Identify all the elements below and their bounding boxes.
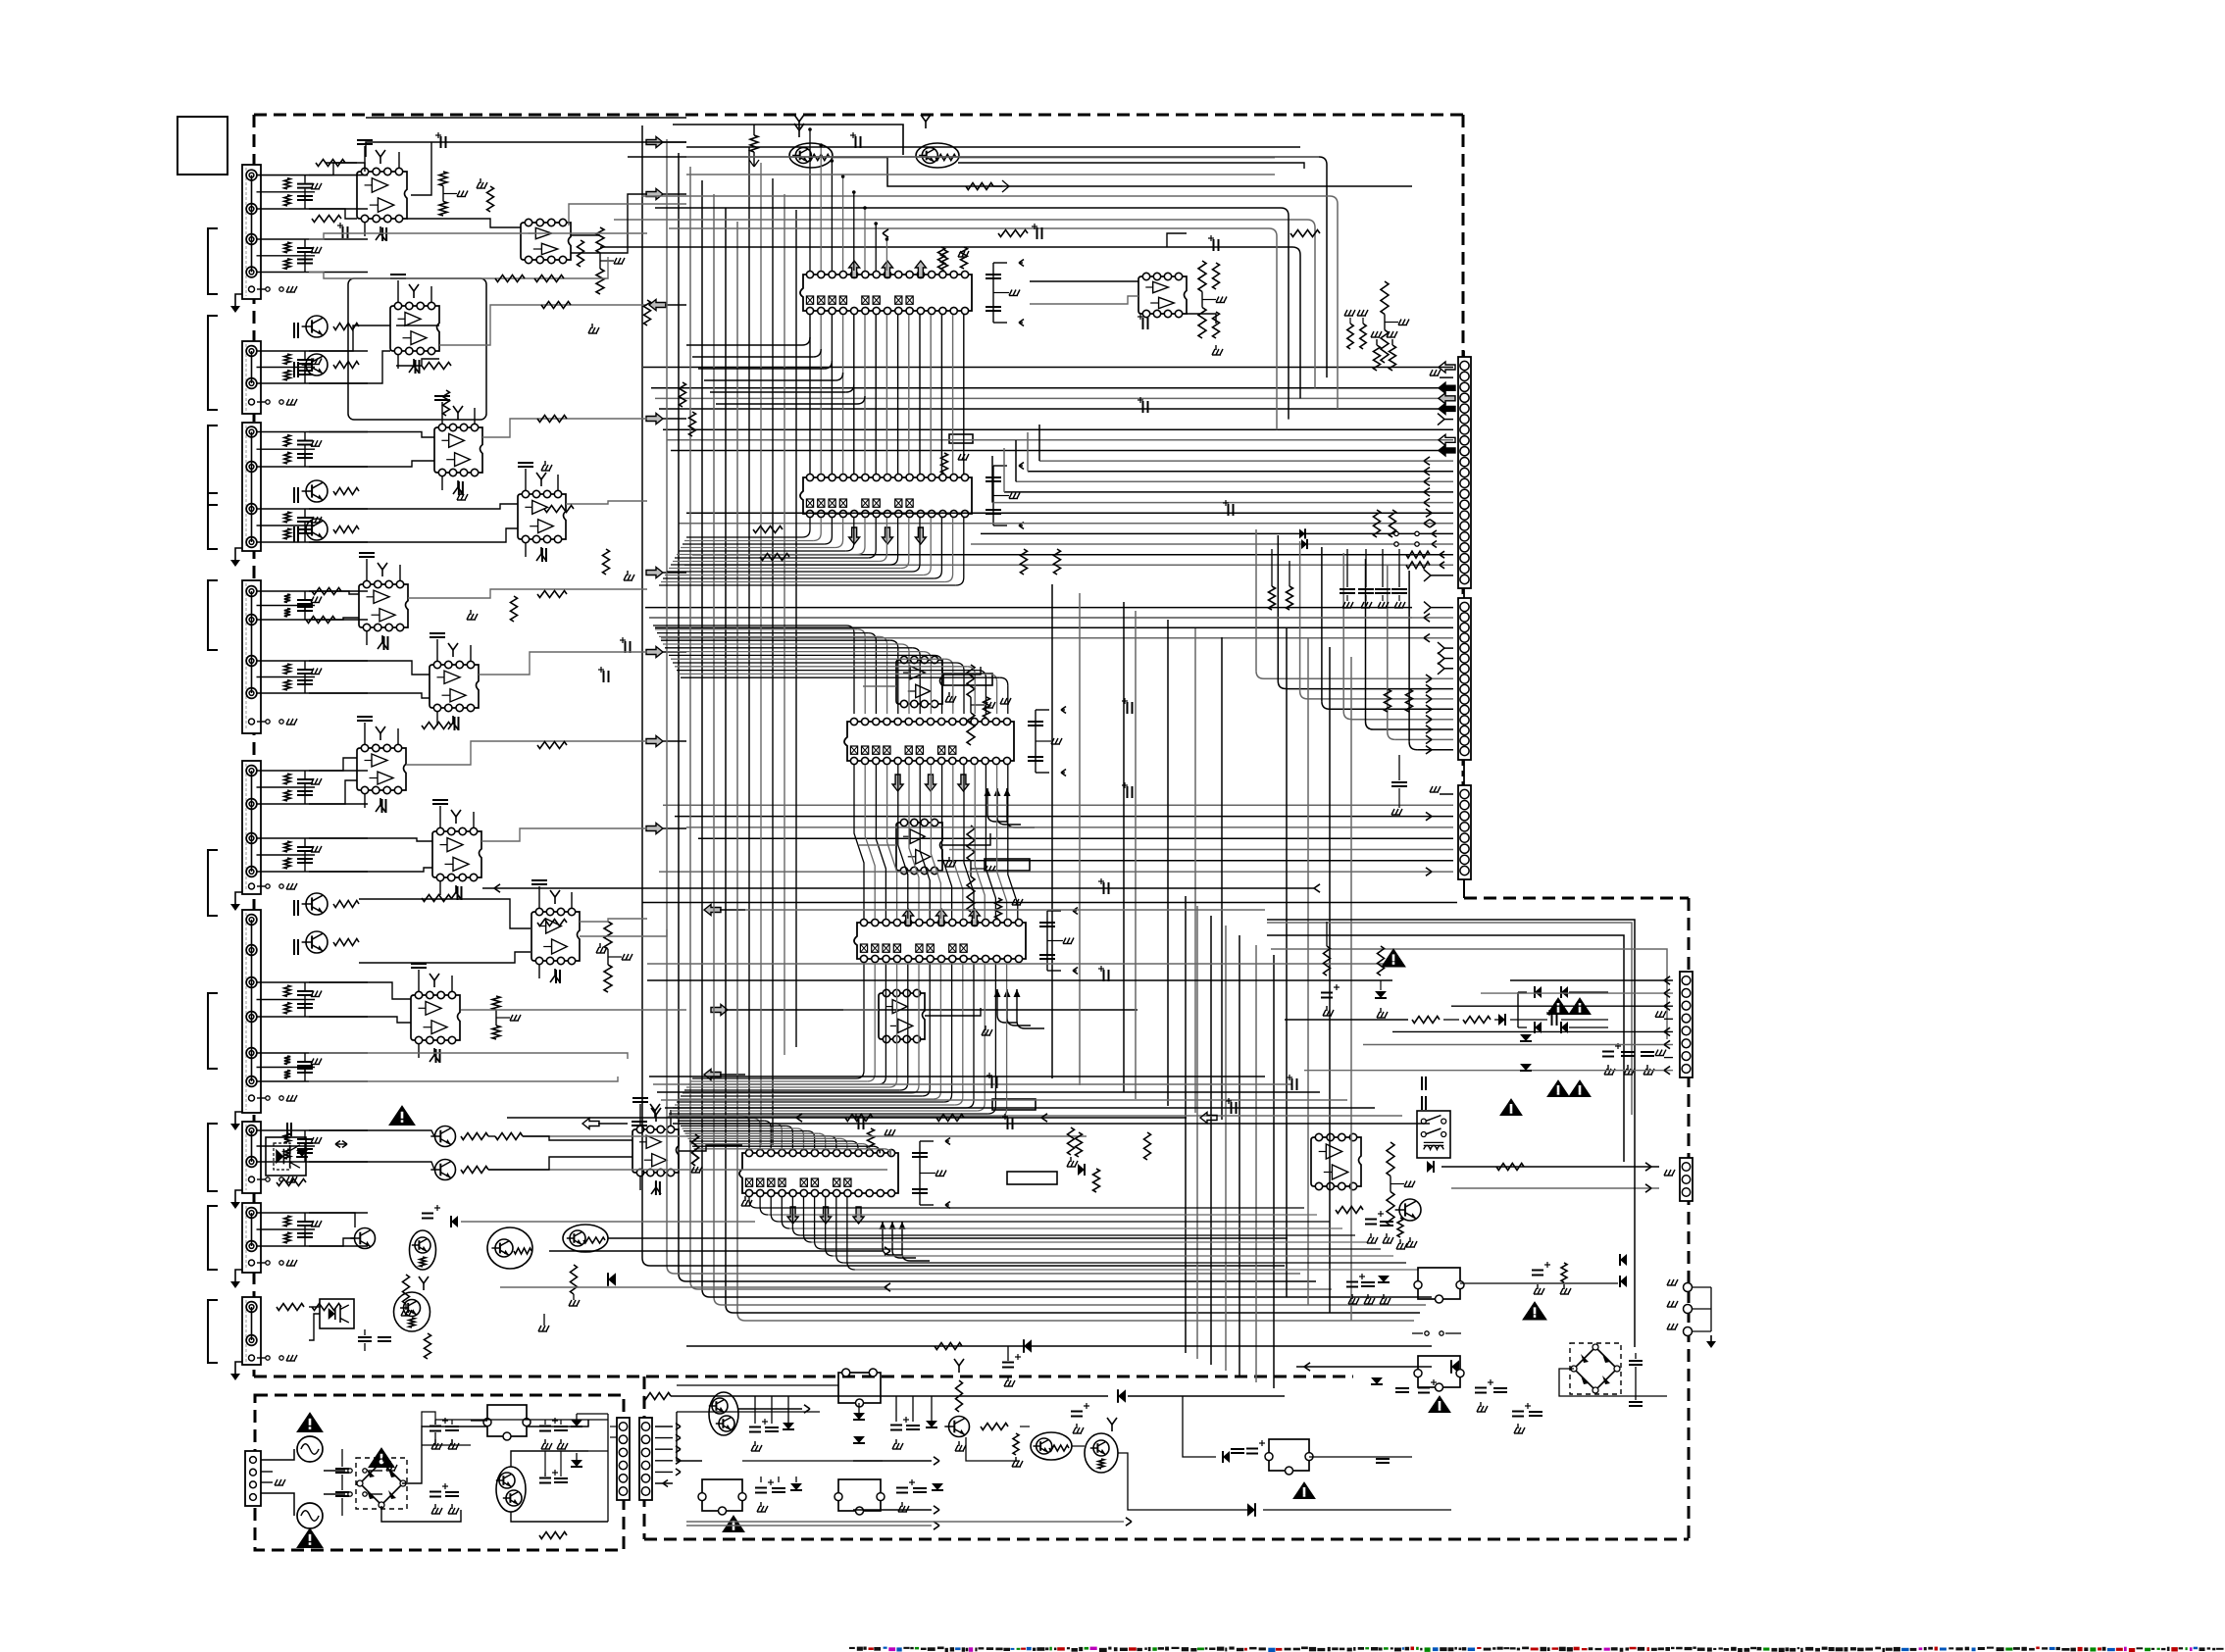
signal arrow left y1096 bbox=[704, 1070, 721, 1080]
bus nest V4-5 bbox=[655, 207, 1281, 209]
bus line to CN201 pin6 bbox=[1444, 419, 1453, 421]
input group bracket 5 bbox=[208, 580, 218, 650]
IC101 supply decoupling bbox=[941, 250, 948, 271]
bus IC101-IC102 pin12 bbox=[930, 315, 932, 474]
IC103 control arrow pin11 bbox=[958, 775, 969, 791]
signal arrowhead 4 bbox=[1041, 1114, 1047, 1118]
bus horizontal H1-8 bbox=[745, 1320, 1414, 1322]
bus IC103-IC104 pin11 bbox=[964, 765, 974, 919]
bus vertical V3b-2 bbox=[1196, 906, 1198, 1359]
coupling cap mark 5 bbox=[1142, 401, 1144, 413]
wire run 7 bbox=[407, 219, 521, 227]
bus vertical V3c-1 bbox=[1051, 584, 1053, 1078]
coupling cap mark 10 bbox=[1228, 504, 1230, 516]
bus vertical V1b-3 bbox=[772, 178, 774, 1145]
regulator IC503 bbox=[1269, 1439, 1309, 1471]
ground under CN103 bbox=[235, 548, 242, 554]
diode D505 bbox=[1371, 1377, 1383, 1384]
wire run 4 bbox=[326, 162, 357, 164]
IC102 control arrow pin11 bbox=[915, 527, 926, 544]
op-amp U102 bbox=[521, 223, 571, 260]
cap C404 bbox=[445, 1426, 459, 1427]
CN503 arrow pin5 bbox=[1392, 1030, 1673, 1032]
op-amp U117 bbox=[1138, 276, 1187, 314]
op-amp U119 bias parts bbox=[418, 970, 420, 991]
warning triangle W4 bbox=[369, 1448, 394, 1468]
bus line to CN202 pin11 bbox=[1321, 547, 1323, 701]
bus IC103 in pin15 bbox=[681, 676, 1000, 678]
bus IC105 in pin12 bbox=[691, 1143, 863, 1145]
long rail y920 bbox=[642, 902, 1457, 904]
input group bracket 1 bbox=[208, 228, 218, 294]
CN503 chassis pin4 bbox=[1664, 1018, 1673, 1020]
CN201-CN202 stub bbox=[1463, 588, 1465, 598]
bus line to CN202 pin1 bbox=[1431, 607, 1453, 609]
resistor R201 bbox=[750, 135, 758, 152]
bus IC104 out pin1 bbox=[863, 963, 865, 1071]
regulator IC502 bbox=[1418, 1356, 1460, 1387]
bus IC103 in pin12 bbox=[675, 666, 967, 668]
cap C408 bbox=[554, 1426, 568, 1427]
IC104 sense arrows bbox=[996, 989, 998, 1015]
CN503 arrow pin2 bbox=[1481, 992, 1673, 994]
bus riser CN201 pin13 bbox=[1003, 448, 1005, 492]
bus horizontal H1-5 bbox=[710, 1296, 1432, 1298]
signal arrow right y584 bbox=[646, 568, 663, 578]
bus elbow IC101 pin1 bbox=[802, 337, 810, 345]
warning triangle W9 bbox=[1293, 1482, 1315, 1499]
wire run 43 bbox=[309, 1130, 434, 1136]
bus line to CN202 pin6 bbox=[1444, 658, 1453, 660]
bus below IC105 pin10 bbox=[846, 1197, 848, 1262]
opamp U115 bias bbox=[632, 1121, 647, 1123]
CN503 arrow pin8 bbox=[1304, 1070, 1673, 1072]
series resistor SR16 bbox=[422, 723, 451, 729]
coupling cap mark 19 bbox=[1291, 1078, 1293, 1090]
CN302 arrow pin3 bbox=[655, 1448, 673, 1450]
series resistor SR14 bbox=[1290, 230, 1320, 237]
bus vertical V3-2 bbox=[1307, 637, 1309, 1305]
op-amp U109 bbox=[896, 660, 942, 704]
bias resistor VR15 bbox=[1385, 689, 1391, 712]
wire run 21 bbox=[309, 528, 518, 542]
wire run 69 bbox=[686, 174, 1275, 175]
op-amp U115 bbox=[632, 1129, 679, 1173]
input group bracket 2 bbox=[208, 316, 218, 410]
transistor Q302 bbox=[435, 1160, 456, 1180]
bus IC104 out pin13 bbox=[994, 963, 996, 1106]
bus line to CN201 pin10 bbox=[1039, 460, 1453, 462]
bias resistor VR2 bbox=[578, 240, 584, 267]
wire run 50 bbox=[309, 1306, 320, 1308]
pm wires1 bbox=[677, 1412, 702, 1461]
cap C515 bbox=[1231, 1448, 1244, 1450]
bus horizontal H2-6 bbox=[669, 1115, 1402, 1117]
res R501 bbox=[1496, 1164, 1524, 1171]
IC105 control arrow pin5 bbox=[787, 1207, 798, 1224]
bus line to CN203 pin7 bbox=[937, 860, 1453, 862]
diode D305 bbox=[790, 1483, 802, 1490]
bus vertical V1b-5 bbox=[795, 210, 797, 1047]
bus vertical V1-5 bbox=[701, 180, 703, 1289]
yfork Q311 bbox=[958, 1366, 960, 1373]
bus IC104 out pin3 bbox=[885, 963, 886, 1076]
op-amp U107 bias parts bbox=[366, 559, 368, 580]
warning triangle W7 bbox=[1429, 1396, 1450, 1413]
wire run 39 bbox=[309, 1017, 411, 1023]
bus IC101-IC102 pin6 bbox=[864, 315, 866, 474]
bus IC103-IC104 pin8 bbox=[931, 765, 940, 919]
cap C308 bbox=[913, 1487, 927, 1489]
res R303 bbox=[495, 1133, 523, 1140]
wire run 19 bbox=[482, 419, 647, 437]
bus line to CN201 pin17 bbox=[981, 532, 1453, 534]
connector CN503 bbox=[1680, 972, 1693, 1077]
bus below IC105 pin7 bbox=[814, 1197, 816, 1241]
shield box main left edge bbox=[253, 115, 256, 1377]
IC104 control arrow pin5 bbox=[903, 909, 914, 926]
bias resistor VR18 bbox=[1093, 1169, 1100, 1192]
input RC network IN4 bbox=[257, 431, 368, 433]
op-amp U110 bias parts bbox=[364, 723, 366, 744]
cap C522 bbox=[1641, 1051, 1654, 1053]
op-amp U112 bbox=[896, 823, 942, 871]
input RC network IN8 bbox=[257, 770, 368, 772]
wire Q201-Q202 bbox=[833, 158, 1412, 187]
connector CN105 bbox=[242, 761, 261, 894]
CN302 arrow pin6 bbox=[655, 1482, 673, 1484]
bus vertical V3c-5 bbox=[1167, 620, 1169, 1106]
bus line to CN201 pin14 bbox=[992, 502, 1453, 504]
loose pin P1 bbox=[1684, 1283, 1693, 1292]
input RC network IN13 bbox=[257, 1212, 368, 1214]
signal arrow right y427 bbox=[646, 414, 663, 425]
mains box bbox=[255, 1395, 624, 1550]
scan noise strip bbox=[849, 1647, 855, 1649]
record mute switch at CN107 bbox=[257, 1178, 266, 1180]
bus below IC105 pin4 bbox=[781, 1197, 783, 1221]
record mute switch at CN102 bbox=[257, 401, 266, 403]
bus line to CN202 pin2 bbox=[649, 617, 1453, 619]
wire run 57 bbox=[1167, 233, 1187, 247]
mains wires bbox=[261, 1449, 294, 1460]
IC105 control arrow pin11 bbox=[853, 1207, 864, 1224]
signal arrow right y756 bbox=[646, 736, 663, 747]
pm bottom rail bbox=[686, 1521, 1124, 1523]
wire run 59 bbox=[942, 667, 981, 675]
diode quad D520 bbox=[1535, 986, 1542, 998]
bus IC105 in pin5 bbox=[681, 1125, 785, 1126]
bus IC105 in pin8 bbox=[685, 1132, 819, 1134]
cap C406 bbox=[445, 1491, 459, 1493]
bus line to CN202 pin15 bbox=[1408, 571, 1410, 742]
op-amp U103 bbox=[390, 306, 439, 351]
IC103 sense arrows bbox=[986, 788, 988, 814]
shield box stub below CN3 bbox=[1463, 879, 1465, 898]
input RC network IN12 bbox=[257, 1129, 368, 1131]
bus line to CN202 pin12 bbox=[1342, 553, 1344, 712]
wire run 60 bbox=[863, 685, 896, 687]
cap C513 bbox=[1529, 1411, 1542, 1413]
bus IC104 out pin8 bbox=[939, 963, 941, 1091]
IC104 control arrow pin8 bbox=[936, 909, 947, 926]
wire run 24 bbox=[309, 618, 359, 620]
input group bracket 8 bbox=[208, 1124, 218, 1191]
bus IC103 in pin10 bbox=[671, 658, 945, 660]
IC105 control arrow pin8 bbox=[821, 1207, 832, 1224]
res R310 bbox=[1068, 1127, 1075, 1155]
bus vertical V3b-6 bbox=[1255, 945, 1257, 1382]
wire y1246 bbox=[461, 1221, 755, 1223]
CN302 arrow pin2 bbox=[655, 1437, 673, 1439]
oval Q304 bbox=[410, 1230, 436, 1270]
IC101 control arrow pin11 bbox=[915, 261, 926, 277]
wire run 30 bbox=[309, 780, 357, 804]
signal arrow right y145 bbox=[646, 137, 663, 148]
cap C306 bbox=[772, 1487, 785, 1489]
warning triangle W1 bbox=[389, 1106, 415, 1126]
coupling cap mark 8 bbox=[625, 641, 627, 653]
transistor Q301 bbox=[435, 1126, 456, 1147]
res R521 bbox=[1378, 946, 1385, 976]
feedback divider near U106 bbox=[1198, 261, 1206, 292]
wire run 31 bbox=[406, 741, 647, 765]
signal arrowhead 1 bbox=[883, 229, 888, 233]
bus IC105 in pin2 bbox=[677, 1118, 754, 1120]
bus line to CN201 pin4 bbox=[655, 397, 1453, 399]
bus horizontal H1-2 bbox=[675, 1273, 1300, 1275]
bus IC104 out pin6 bbox=[918, 963, 920, 1085]
bus horizontal H2-4 bbox=[661, 1099, 1347, 1101]
psu mid wires bbox=[966, 1437, 1020, 1461]
diode D308 bbox=[1247, 1503, 1255, 1517]
wire run 61 bbox=[942, 833, 990, 845]
bus line to CN201 pin11 bbox=[1028, 471, 1453, 473]
wire run 37 bbox=[580, 919, 647, 922]
oval Q307 bbox=[394, 1292, 430, 1331]
bus above IC101 pin6 bbox=[864, 208, 866, 271]
bus IC102 out pin11 bbox=[919, 518, 921, 564]
input group bracket 4 bbox=[208, 493, 218, 549]
decoupling gnd 6 bbox=[470, 610, 472, 615]
input RC network IN1 bbox=[257, 175, 368, 176]
bus IC102 out pin2 bbox=[820, 518, 822, 533]
arrow psu right3 bbox=[686, 1525, 932, 1527]
wire run 47 bbox=[488, 1157, 632, 1170]
input group bracket 9 bbox=[208, 1206, 218, 1270]
bus IC104 out pin5 bbox=[907, 963, 909, 1082]
connector CN504 bbox=[1680, 1158, 1693, 1201]
bus IC103-IC104 pin12 bbox=[975, 765, 985, 919]
wire run 46 bbox=[523, 1136, 632, 1140]
shield box main right edge upper bbox=[1462, 115, 1465, 358]
wire run 29 bbox=[309, 758, 357, 771]
cap C514 bbox=[1629, 1360, 1643, 1362]
bus above IC101 pin2 bbox=[820, 145, 822, 271]
pm col stubs bbox=[754, 1396, 756, 1424]
series resistor SR8 bbox=[544, 506, 574, 513]
bus vertical V3c-6 bbox=[1194, 628, 1196, 1113]
cap C506 bbox=[1346, 1281, 1358, 1283]
wire run 20 bbox=[309, 504, 518, 509]
res R312 bbox=[981, 1424, 1008, 1430]
input RC network IN2 bbox=[257, 238, 368, 240]
diode D501 bbox=[1427, 1161, 1434, 1173]
bus vertical V3-1 bbox=[1286, 627, 1288, 1297]
wire run 56 bbox=[1030, 296, 1138, 304]
part number box IC102 bbox=[949, 434, 973, 443]
wire run 55 bbox=[1030, 280, 1138, 282]
wire run 65 bbox=[843, 1009, 879, 1011]
diode D301 bbox=[853, 1413, 865, 1420]
bus line to CN201 pin19 bbox=[692, 554, 1453, 556]
connector CN102 bbox=[242, 341, 261, 414]
optocoupler PC101 bbox=[266, 1137, 306, 1176]
CN201 stub top bbox=[1463, 351, 1465, 357]
coupling cap mark 7 bbox=[1037, 227, 1038, 239]
bus line to CN202 pin8 bbox=[1255, 529, 1257, 671]
bus IC102 out pin14 bbox=[952, 518, 954, 575]
oval Q306 bbox=[563, 1225, 608, 1252]
wire run 58 bbox=[1187, 314, 1216, 324]
rail y620 bbox=[645, 607, 1412, 609]
regulator IC302 bbox=[838, 1479, 881, 1511]
bus IC102 out pin1 bbox=[809, 518, 811, 529]
bus vertical V3c-2 bbox=[1079, 593, 1081, 1085]
bus IC101-IC102 pin7 bbox=[875, 315, 877, 474]
cap C303 bbox=[890, 1425, 902, 1427]
feedback divider near U101 bbox=[439, 172, 447, 186]
bus IC103 in pin8 bbox=[667, 651, 923, 653]
bus nest V4-2 bbox=[614, 219, 1307, 221]
bus line to CN201 pin15 bbox=[686, 512, 1453, 514]
bias resistor VR16 bbox=[1406, 689, 1413, 712]
relay RY301 bbox=[838, 1373, 881, 1403]
bus line to CN202 pin3 bbox=[655, 626, 1453, 628]
optocoupler PC102 bbox=[320, 1299, 354, 1328]
feedback divider near U109 bbox=[967, 665, 975, 697]
bus line to CN202 pin5 bbox=[1444, 647, 1453, 649]
transistor Q311 bbox=[949, 1417, 970, 1437]
long rail y1000 bbox=[647, 979, 1392, 981]
record mute switch at CN108 bbox=[257, 1262, 266, 1264]
arrow R202 bbox=[993, 185, 1002, 187]
wire run 64 bbox=[925, 1008, 981, 1016]
bus IC105 in pin9 bbox=[686, 1135, 830, 1137]
bus elbow IC101 pin5 bbox=[846, 384, 854, 392]
IC102 supply decoupling bbox=[941, 453, 948, 474]
bus vertical V1-7 bbox=[725, 208, 727, 1305]
bus vertical V3-4 bbox=[1350, 657, 1352, 1321]
res R304 bbox=[403, 1275, 410, 1304]
bias resistor VR12 bbox=[961, 247, 968, 269]
diode D306 bbox=[932, 1483, 943, 1490]
CN503 chassis pin7 bbox=[1664, 1057, 1673, 1059]
warning triangle W10 bbox=[1547, 998, 1569, 1015]
wire run 1 bbox=[366, 142, 647, 157]
op-amp U105 bbox=[518, 494, 566, 539]
bus line to CN201 pin8 bbox=[667, 439, 1453, 441]
coupling cap mark 13 bbox=[1103, 882, 1105, 894]
ground under CN105 bbox=[235, 892, 242, 898]
series resistor SR19 bbox=[537, 920, 567, 926]
wire run 15 bbox=[309, 325, 390, 351]
cap C304 bbox=[906, 1425, 920, 1427]
bus horizontal H2-2 bbox=[653, 1083, 1292, 1085]
bus IC103-IC104 pin14 bbox=[997, 765, 1007, 919]
series resistor SR10 bbox=[306, 617, 335, 624]
series resistor SR4 bbox=[534, 275, 564, 282]
wire run 42 bbox=[461, 1009, 686, 1011]
bus IC101-IC102 pin15 bbox=[963, 315, 965, 474]
op-amp U104 bias parts bbox=[441, 402, 443, 424]
bus IC105 in pin4 bbox=[680, 1123, 776, 1125]
bus above IC101 pin7 bbox=[875, 224, 877, 271]
warning triangle W13 bbox=[1547, 1080, 1569, 1097]
rail y1373 bbox=[686, 1345, 1432, 1347]
wire q306 right bbox=[608, 1237, 1288, 1239]
loose pin P2 bbox=[1684, 1305, 1693, 1314]
resistor R202 bbox=[966, 183, 993, 190]
op-amp U108 bias parts bbox=[436, 639, 438, 661]
wire y954 bbox=[1267, 935, 1624, 1162]
bus vertical V3b-3 bbox=[1210, 916, 1212, 1365]
decoupling caps row below CN201 bbox=[1346, 549, 1348, 587]
bus vertical V1-8 bbox=[736, 222, 738, 1313]
bus vertical V3-3 bbox=[1329, 647, 1331, 1313]
wire run 70 bbox=[647, 141, 686, 143]
decoupling gnd 3 bbox=[460, 490, 462, 495]
signal arrow right y845 bbox=[646, 824, 663, 834]
coupling cap mark 3 bbox=[855, 136, 857, 148]
res R309 bbox=[936, 1115, 964, 1122]
op-amp U110 bbox=[357, 748, 406, 790]
series resistor SR15 bbox=[537, 591, 567, 598]
bridge rectifier D401 bbox=[356, 1458, 407, 1509]
bias resistor VR4 bbox=[511, 596, 518, 622]
op-amp U101 bias parts bbox=[364, 146, 366, 168]
switch IC IC105 bbox=[739, 1153, 898, 1193]
yfork Q307 bbox=[423, 1283, 425, 1290]
cap C151 bbox=[422, 1213, 433, 1215]
res R302 bbox=[461, 1167, 488, 1174]
wire run 23 bbox=[309, 591, 359, 594]
loose pin P3 bbox=[1684, 1327, 1693, 1336]
IC103 control arrow pin8 bbox=[926, 775, 936, 791]
IC104 supply decoupling bbox=[995, 898, 1002, 919]
fuse F401 bbox=[324, 1470, 345, 1472]
input RC network IN6 bbox=[257, 590, 368, 592]
decoupling gnd 11 bbox=[985, 1026, 986, 1030]
res R503 bbox=[1397, 1218, 1403, 1237]
cap near CN203 bbox=[1398, 755, 1400, 780]
series resistor SR7 bbox=[537, 416, 567, 423]
bus IC101-IC102 pin14 bbox=[952, 315, 954, 474]
bus line to CN201 pin7 bbox=[663, 428, 1453, 430]
bus horizontal H1-7 bbox=[733, 1312, 1420, 1314]
record mute switch at CN106 bbox=[257, 1097, 266, 1099]
bus IC103-IC104 pin1 bbox=[854, 765, 864, 919]
wire run 28 bbox=[479, 652, 647, 675]
input RC network IN5 bbox=[257, 508, 368, 510]
op-amp U118 bbox=[1311, 1137, 1361, 1186]
bus IC103-IC104 pin13 bbox=[986, 765, 995, 919]
connector CN108 bbox=[242, 1203, 261, 1273]
record mute switch at CN105 bbox=[257, 885, 266, 887]
wire run 67 bbox=[686, 156, 1319, 158]
bus above IC101 pin4 bbox=[842, 176, 844, 271]
transistor Q501 bbox=[1399, 1199, 1421, 1221]
